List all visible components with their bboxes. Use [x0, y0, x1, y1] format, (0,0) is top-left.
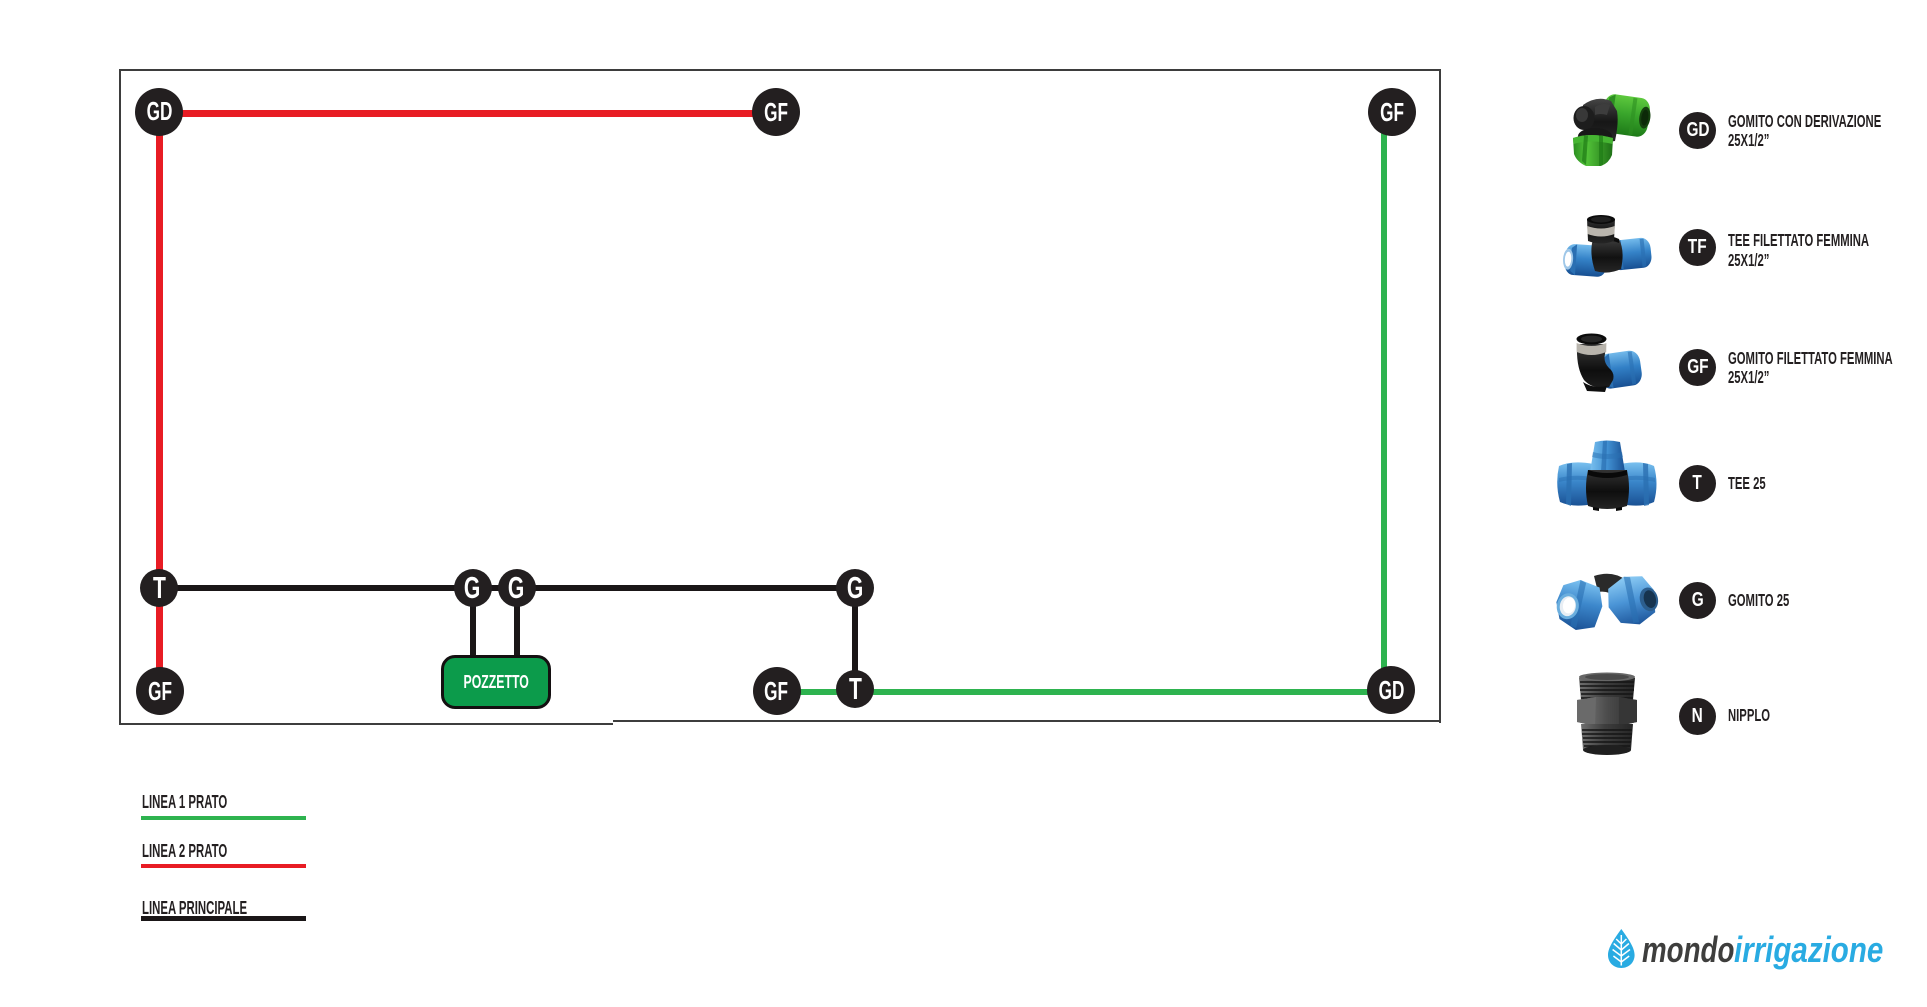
label T: [1728, 474, 1786, 494]
badge GD: [1679, 112, 1716, 149]
pozzetto box: [441, 655, 551, 709]
node GF bottom-left: [136, 667, 184, 715]
icon GD green elbow fitting: [1569, 89, 1651, 174]
icon GF black/blue elbow fitting: [1569, 330, 1645, 399]
wire: black vertical G to T: [852, 588, 858, 688]
plot boundary rectangle (top/left/right borders): [119, 69, 1441, 723]
legend red line: [141, 864, 306, 868]
logo mondoirrigazione: [1600, 920, 1900, 980]
node GF bottom-middle: [753, 667, 801, 715]
legend: linea principale: [142, 899, 308, 917]
wire: green horizontal line (linea 1) bottom: [776, 689, 1391, 695]
legend black line: [141, 916, 306, 921]
badge GF: [1679, 349, 1716, 386]
icon G blue elbow fitting: [1556, 572, 1660, 639]
legend: linea 1 prato: [142, 793, 277, 811]
badge N: [1679, 698, 1716, 735]
label TF: [1728, 231, 1927, 270]
node G pozzetto-2: [498, 569, 536, 607]
label G: [1728, 591, 1823, 611]
label GF: [1728, 349, 1927, 388]
wire: black drop to pozzetto 1: [470, 588, 476, 658]
badge T: [1679, 465, 1716, 502]
plot bottom border left segment: [119, 723, 613, 725]
node GD top-left: [135, 88, 183, 136]
label GD: [1728, 112, 1927, 151]
plot bottom border right segment: [613, 720, 1441, 722]
badge G: [1679, 582, 1716, 619]
node G right: [836, 569, 874, 607]
legend: linea 2 prato: [142, 842, 277, 860]
badge TF: [1679, 229, 1716, 266]
node GD bottom-right: [1367, 666, 1415, 714]
wire: red horizontal line (linea 2) top: [159, 110, 776, 117]
node T bottom: [836, 670, 874, 708]
icon N dark nipple fitting: [1571, 670, 1641, 763]
node G pozzetto-1: [454, 569, 492, 607]
node GF top-middle: [752, 88, 800, 136]
icon TF blue tee threaded fitting: [1563, 213, 1653, 290]
label N: [1728, 706, 1793, 726]
wire: black main horizontal line: [159, 585, 855, 591]
legend green line: [141, 816, 306, 820]
node GF top-right: [1368, 88, 1416, 136]
wire: black drop to pozzetto 2: [514, 588, 520, 658]
node T left: [140, 569, 178, 607]
wire: red vertical line (linea 2) left: [156, 111, 163, 691]
wire: green vertical line (linea 1) right: [1381, 112, 1387, 690]
icon T blue tee fitting: [1557, 440, 1657, 517]
